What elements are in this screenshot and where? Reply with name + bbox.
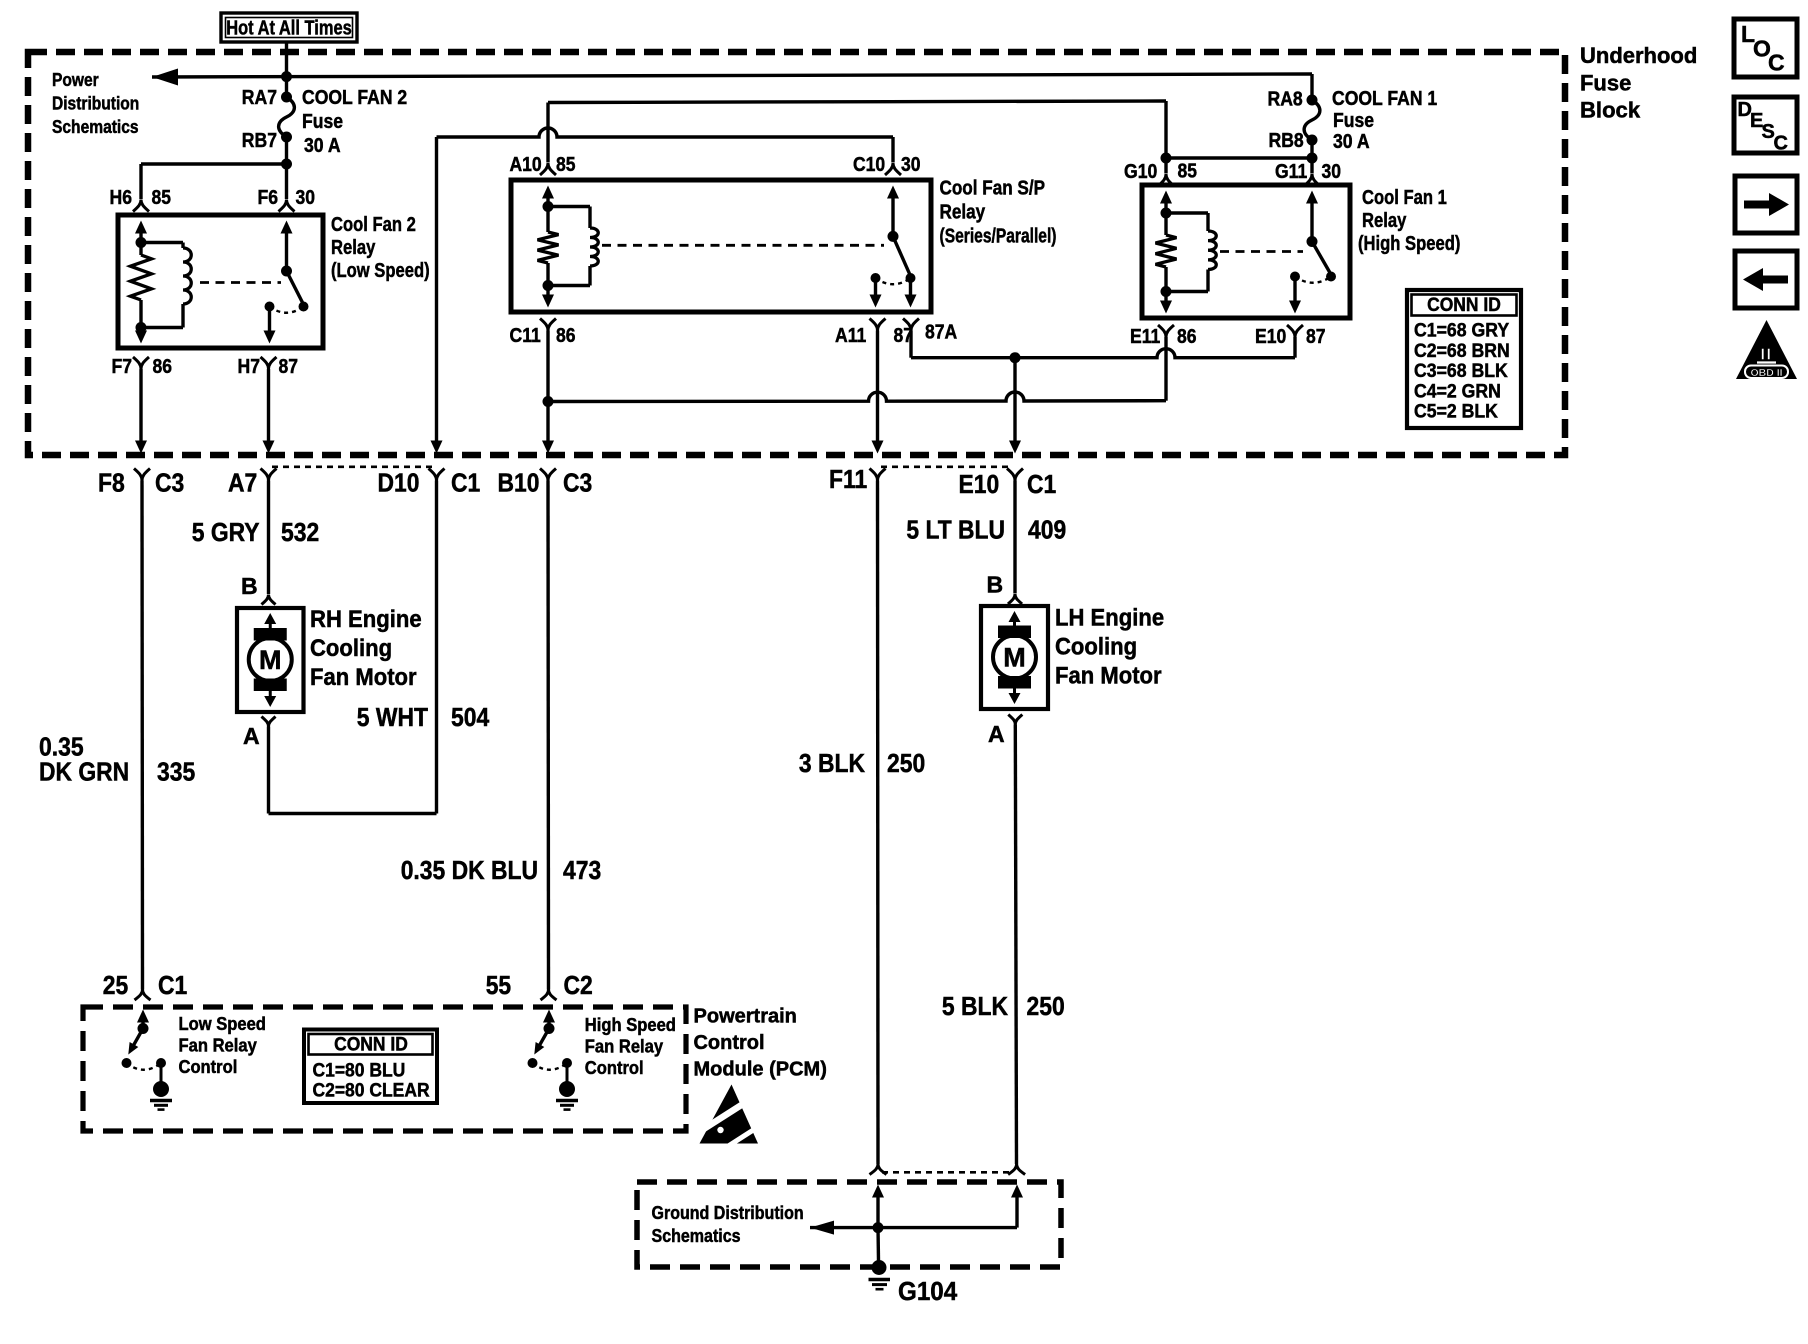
svg-text:C: C: [1768, 50, 1785, 76]
svg-text:Hot At All Times: Hot At All Times: [226, 18, 352, 40]
svg-text:E10: E10: [1255, 326, 1286, 348]
svg-text:D10: D10: [378, 468, 420, 498]
svg-text:409: 409: [1028, 515, 1066, 545]
svg-text:85: 85: [556, 154, 576, 176]
svg-text:504: 504: [451, 702, 490, 732]
svg-text:Fan Relay: Fan Relay: [179, 1036, 257, 1056]
svg-text:Power: Power: [52, 70, 99, 90]
svg-text:5 BLK: 5 BLK: [942, 991, 1008, 1021]
svg-text:5 WHT: 5 WHT: [357, 702, 428, 732]
svg-text:C3: C3: [155, 468, 184, 498]
svg-text:C1=80 BLU: C1=80 BLU: [313, 1061, 406, 1082]
svg-text:RB8: RB8: [1269, 130, 1304, 152]
svg-text:3 BLK: 3 BLK: [799, 748, 865, 778]
svg-text:Cooling: Cooling: [310, 635, 392, 662]
svg-text:OBD II: OBD II: [1750, 367, 1782, 379]
svg-text:RB7: RB7: [242, 130, 277, 152]
svg-text:B: B: [241, 573, 258, 599]
svg-text:30 A: 30 A: [1333, 131, 1370, 153]
svg-text:C1: C1: [1027, 469, 1056, 499]
svg-text:F7: F7: [112, 356, 133, 378]
svg-text:C: C: [1774, 133, 1788, 155]
svg-text:COOL FAN 1: COOL FAN 1: [1332, 88, 1437, 110]
svg-text:A: A: [988, 721, 1005, 747]
svg-text:A7: A7: [228, 468, 257, 498]
svg-text:0.35 DK BLU: 0.35 DK BLU: [401, 855, 538, 885]
svg-text:Distribution: Distribution: [52, 94, 139, 114]
svg-text:Fuse: Fuse: [302, 111, 343, 133]
svg-text:C11: C11: [510, 325, 541, 347]
svg-text:30: 30: [901, 154, 921, 176]
svg-text:II: II: [1761, 347, 1773, 364]
svg-text:Fan Motor: Fan Motor: [310, 664, 417, 691]
svg-text:Ground Distribution: Ground Distribution: [652, 1203, 804, 1223]
svg-text:Powertrain: Powertrain: [694, 1006, 797, 1028]
svg-text:H6: H6: [110, 187, 133, 209]
svg-text:Relay: Relay: [1362, 210, 1407, 232]
svg-text:DK GRN: DK GRN: [39, 757, 129, 787]
svg-text:55: 55: [486, 970, 511, 1000]
svg-text:B10: B10: [498, 468, 540, 498]
svg-text:Control: Control: [694, 1032, 765, 1054]
svg-text:C5=2 BLK: C5=2 BLK: [1414, 402, 1498, 423]
svg-text:Schematics: Schematics: [52, 117, 139, 137]
svg-text:E11: E11: [1130, 326, 1160, 348]
svg-text:Cool Fan S/P: Cool Fan S/P: [940, 178, 1046, 200]
svg-text:335: 335: [157, 757, 195, 787]
svg-text:C4=2 GRN: C4=2 GRN: [1414, 381, 1501, 402]
svg-text:Fan Relay: Fan Relay: [585, 1037, 663, 1057]
svg-text:Fuse: Fuse: [1580, 71, 1631, 96]
svg-text:Cool Fan 1: Cool Fan 1: [1362, 187, 1447, 209]
svg-text:Module (PCM): Module (PCM): [694, 1059, 827, 1081]
svg-text:C2=80 CLEAR: C2=80 CLEAR: [313, 1081, 430, 1102]
svg-text:C3=68 BLK: C3=68 BLK: [1414, 361, 1508, 382]
svg-text:5 LT BLU: 5 LT BLU: [906, 515, 1005, 545]
svg-text:Cooling: Cooling: [1055, 634, 1137, 661]
svg-text:85: 85: [152, 187, 172, 209]
svg-text:CONN ID: CONN ID: [334, 1035, 408, 1056]
svg-text:A11: A11: [835, 325, 866, 347]
svg-text:RA8: RA8: [1268, 89, 1303, 111]
svg-text:E10: E10: [959, 469, 1000, 499]
svg-text:Control: Control: [585, 1058, 644, 1078]
svg-text:Schematics: Schematics: [652, 1226, 741, 1246]
svg-text:87A: 87A: [925, 322, 957, 344]
svg-text:5 GRY: 5 GRY: [192, 517, 260, 547]
svg-text:85: 85: [1178, 161, 1198, 183]
svg-text:87: 87: [894, 325, 914, 347]
svg-text:Control: Control: [179, 1057, 238, 1077]
svg-text:30: 30: [296, 187, 316, 209]
svg-text:LH Engine: LH Engine: [1055, 605, 1164, 632]
svg-text:C3: C3: [563, 468, 592, 498]
svg-text:H7: H7: [238, 356, 261, 378]
svg-text:(Low Speed): (Low Speed): [331, 260, 430, 282]
svg-text:(High Speed): (High Speed): [1358, 233, 1460, 255]
svg-text:Cool Fan 2: Cool Fan 2: [331, 214, 416, 236]
svg-text:C1: C1: [451, 468, 480, 498]
svg-text:F11: F11: [829, 464, 867, 494]
svg-text:25: 25: [103, 970, 128, 1000]
svg-text:87: 87: [1306, 326, 1326, 348]
svg-text:30 A: 30 A: [304, 135, 341, 157]
svg-text:C1: C1: [158, 970, 187, 1000]
svg-text:C2: C2: [564, 970, 593, 1000]
svg-text:532: 532: [281, 517, 319, 547]
svg-text:RH Engine: RH Engine: [310, 606, 422, 633]
svg-text:Low Speed: Low Speed: [179, 1014, 266, 1034]
svg-text:87: 87: [279, 356, 299, 378]
svg-text:86: 86: [556, 325, 576, 347]
svg-text:M: M: [259, 645, 282, 675]
svg-text:250: 250: [887, 748, 925, 778]
svg-text:Block: Block: [1580, 98, 1641, 123]
svg-text:M: M: [1003, 643, 1026, 673]
svg-text:Relay: Relay: [940, 202, 986, 224]
svg-text:Fuse: Fuse: [1333, 110, 1374, 132]
svg-text:473: 473: [563, 855, 601, 885]
svg-text:COOL FAN 2: COOL FAN 2: [302, 87, 407, 109]
svg-text:High Speed: High Speed: [585, 1015, 676, 1035]
svg-text:Underhood: Underhood: [1580, 43, 1697, 68]
svg-text:Fan Motor: Fan Motor: [1055, 663, 1162, 690]
svg-text:30: 30: [1322, 161, 1342, 183]
svg-text:F6: F6: [258, 187, 279, 209]
svg-text:G104: G104: [898, 1276, 958, 1306]
svg-text:(Series/Parallel): (Series/Parallel): [940, 226, 1057, 248]
svg-text:C2=68 BRN: C2=68 BRN: [1414, 341, 1510, 362]
svg-text:F8: F8: [98, 468, 125, 498]
svg-text:A: A: [243, 723, 260, 749]
svg-text:C1=68 GRY: C1=68 GRY: [1414, 321, 1509, 342]
svg-text:RA7: RA7: [242, 87, 277, 109]
svg-text:86: 86: [1177, 326, 1197, 348]
svg-text:86: 86: [153, 356, 173, 378]
svg-text:G10: G10: [1124, 161, 1157, 183]
svg-text:250: 250: [1027, 991, 1065, 1021]
svg-text:A10: A10: [510, 154, 542, 176]
svg-text:G11: G11: [1275, 161, 1307, 183]
svg-text:CONN ID: CONN ID: [1427, 295, 1501, 316]
svg-text:Relay: Relay: [331, 237, 376, 259]
svg-text:B: B: [987, 572, 1004, 598]
svg-text:C10: C10: [853, 154, 885, 176]
